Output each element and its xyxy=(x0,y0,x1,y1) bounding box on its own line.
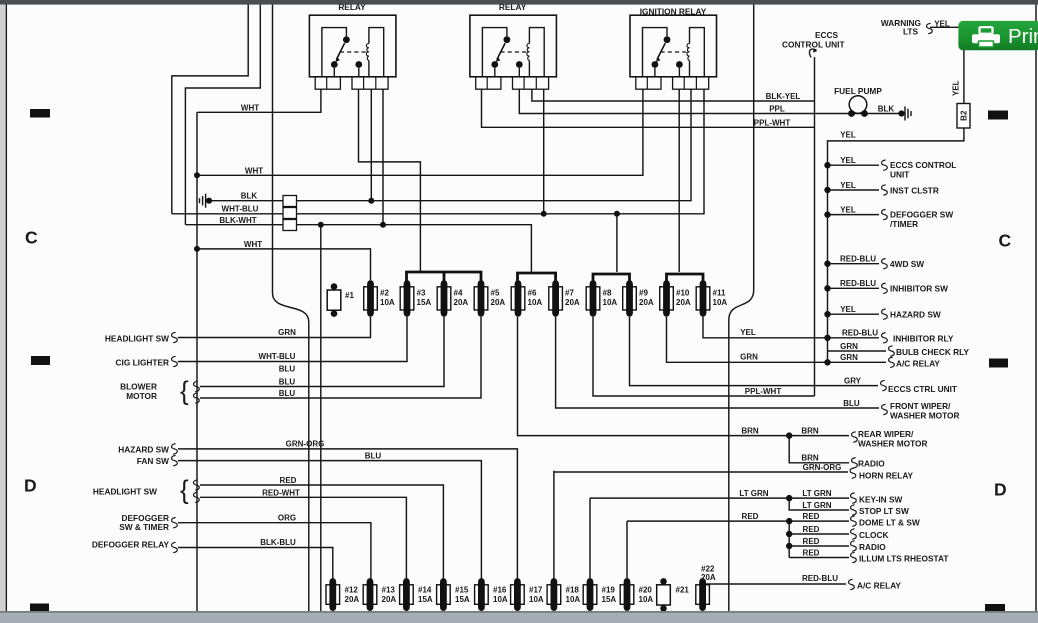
svg-text:15A: 15A xyxy=(418,595,433,604)
svg-text:10A: 10A xyxy=(603,298,618,307)
svg-text:ECCS CTRL UNIT: ECCS CTRL UNIT xyxy=(888,384,957,394)
bracket fuses 8-9 xyxy=(593,274,630,281)
branch HAZARD SW xyxy=(828,313,880,315)
svg-text:RED: RED xyxy=(803,525,820,534)
relay K1 xyxy=(309,15,396,89)
fuse #10 20A xyxy=(660,280,674,317)
svg-text:BLU: BLU xyxy=(279,389,296,398)
fuse #11 10A xyxy=(696,280,710,317)
wire BLU from fuse7 to FRONT WIPER xyxy=(556,317,879,408)
wire: bracket3 feed from WHT-BLU xyxy=(616,214,618,272)
svg-text:STOP LT SW: STOP LT SW xyxy=(859,506,909,516)
svg-text:RADIO: RADIO xyxy=(858,458,885,468)
fuse #16 10A xyxy=(475,578,489,611)
node dots lower right bus xyxy=(786,432,792,438)
svg-text:HAZARD SW: HAZARD SW xyxy=(890,310,941,320)
svg-text:YEL: YEL xyxy=(840,305,856,314)
svg-text:WHT-BLU: WHT-BLU xyxy=(222,205,259,214)
svg-text:HEADLIGHT SW: HEADLIGHT SW xyxy=(93,487,157,497)
svg-text:#8: #8 xyxy=(603,289,612,298)
svg-text:YEL: YEL xyxy=(840,205,856,214)
wire: relay1 pin2 jog to bracket1 feed xyxy=(359,90,421,273)
svg-text:20A: 20A xyxy=(701,573,716,582)
svg-text:20A: 20A xyxy=(491,298,506,307)
connector box on WHT-BLU xyxy=(283,208,297,219)
wire: ECCS control unit vertical x814.5 down to PPL-WHT row xyxy=(814,57,816,396)
svg-text:WASHER MOTOR: WASHER MOTOR xyxy=(890,411,959,421)
wire BRN bus + RADIO branch xyxy=(789,436,849,463)
svg-text:FAN SW: FAN SW xyxy=(137,456,169,466)
svg-text:RED: RED xyxy=(280,476,297,485)
svg-text:RED-BLU: RED-BLU xyxy=(802,574,838,583)
connector box on BLK xyxy=(283,196,297,207)
svg-text:DEFOGGER RELAY: DEFOGGER RELAY xyxy=(92,540,170,550)
svg-text:UNIT: UNIT xyxy=(890,170,909,180)
svg-text:YEL: YEL xyxy=(840,156,856,165)
fuse #15 15A xyxy=(437,578,451,611)
fuse #2 10A xyxy=(364,280,378,317)
svg-text:#18: #18 xyxy=(566,586,580,595)
wire BLK-YEL: relay2 pin to x814.5 xyxy=(532,90,815,102)
svg-text:WHT: WHT xyxy=(245,166,263,175)
wire BLU blower1 to fuse4 bottom xyxy=(200,317,444,387)
wire: top feed to BLK-WHT xyxy=(185,0,260,225)
bracket fuses 3-5 xyxy=(407,272,482,281)
svg-text:C: C xyxy=(25,228,38,248)
wire: long vertical from top with S-curve x753.7-728.8 xyxy=(729,0,754,611)
fuse #4 20A xyxy=(437,280,451,317)
branch DEFOGGER SW TIMER xyxy=(828,214,880,216)
svg-text:RED: RED xyxy=(803,548,820,557)
svg-text:{: { xyxy=(180,376,189,406)
svg-text:FRONT WIPER/: FRONT WIPER/ xyxy=(890,401,951,411)
wire: long vertical from top with S-curve x272-309 xyxy=(273,0,309,611)
svg-text:CIG LIGHTER: CIG LIGHTER xyxy=(116,358,169,368)
svg-text:PPL: PPL xyxy=(769,105,785,114)
wire: right page border xyxy=(1035,5,1037,612)
svg-text:BLU: BLU xyxy=(279,378,296,387)
svg-text:YEL: YEL xyxy=(934,19,950,28)
wire BLK-BLU defogger relay to fuse12 feed xyxy=(178,548,333,582)
svg-text:WHT: WHT xyxy=(241,104,259,113)
svg-text:10A: 10A xyxy=(639,595,654,604)
bottom gray strip xyxy=(0,611,1038,623)
svg-text:BLK-WHT: BLK-WHT xyxy=(219,216,256,225)
svg-text:RED-BLU: RED-BLU xyxy=(842,329,878,338)
svg-text:RED: RED xyxy=(742,512,759,521)
svg-text:A/C RELAY: A/C RELAY xyxy=(857,580,901,590)
ignition relay K3 xyxy=(630,15,717,89)
svg-text:DEFOGGER SW: DEFOGGER SW xyxy=(890,210,953,220)
svg-text:BULB CHECK RLY: BULB CHECK RLY xyxy=(896,347,969,357)
wire PPL: relay2 pin through fuel pump to ground xyxy=(519,90,900,114)
fuse #13 20A xyxy=(363,578,377,611)
svg-text:GRN: GRN xyxy=(740,353,758,362)
svg-text:INHIBITOR RLY: INHIBITOR RLY xyxy=(893,333,954,343)
connector box on BLK-WHT xyxy=(283,220,297,231)
wire LT GRN from fuse19 feed + KEY-IN SW xyxy=(590,498,849,581)
tick left bottom xyxy=(30,604,49,612)
wire: relay1 pin4 drop to BLK-WHT xyxy=(382,90,384,225)
fuse #7 20A xyxy=(549,280,563,317)
svg-text:20A: 20A xyxy=(345,595,360,604)
svg-text:ECCS CONTROL: ECCS CONTROL xyxy=(890,160,956,170)
svg-text:WHT-BLU: WHT-BLU xyxy=(259,352,296,361)
wire GRN-ORG hazard sw to fuse17 feed xyxy=(178,449,517,581)
tick left mid xyxy=(31,356,50,365)
wire: relay3 pin2 straight to bracket4 xyxy=(678,90,680,273)
node dots left bus xyxy=(194,172,200,178)
bracket fuses 6-7 xyxy=(518,273,556,281)
wire RED headlight to fuse15 feed xyxy=(200,485,443,581)
svg-text:INHIBITOR SW: INHIBITOR SW xyxy=(890,284,948,294)
svg-text:B2: B2 xyxy=(959,110,968,121)
svg-text:/TIMER: /TIMER xyxy=(890,219,918,229)
tick right bottom xyxy=(985,604,1005,611)
svg-text:#20: #20 xyxy=(639,586,653,595)
svg-text:#13: #13 xyxy=(382,586,396,595)
svg-text:#19: #19 xyxy=(602,586,616,595)
wire GRN-ORG HORN RELAY from fuse18 feed xyxy=(554,471,848,581)
svg-text:RED-BLU: RED-BLU xyxy=(840,255,876,264)
tick right top xyxy=(988,111,1008,120)
ground at fuel pump BLK xyxy=(898,110,904,116)
top bar xyxy=(0,0,1038,5)
svg-text:10A: 10A xyxy=(713,298,728,307)
fuse #22 20A label above xyxy=(696,578,710,611)
svg-text:WASHER MOTOR: WASHER MOTOR xyxy=(858,438,927,448)
svg-text:10A: 10A xyxy=(529,595,544,604)
fuse #21 (empty slot) xyxy=(657,578,671,612)
svg-text:YEL: YEL xyxy=(840,130,856,139)
svg-text:#4: #4 xyxy=(454,289,463,298)
branch ECCS CONTROL UNIT xyxy=(828,164,880,166)
wire: left bus vertical x197 xyxy=(196,112,198,611)
svg-text:PPL-WHT: PPL-WHT xyxy=(745,387,782,396)
svg-text:MOTOR: MOTOR xyxy=(126,391,157,401)
svg-text:ILLUM LTS RHEOSTAT: ILLUM LTS RHEOSTAT xyxy=(859,554,948,564)
svg-text:#12: #12 xyxy=(345,586,359,595)
svg-text:LT GRN: LT GRN xyxy=(802,501,831,510)
svg-text:#5: #5 xyxy=(491,289,500,298)
svg-text:C: C xyxy=(999,231,1012,251)
svg-text:#1: #1 xyxy=(345,291,354,300)
wire GRY from fuse9 to ECCS CTRL UNIT xyxy=(630,317,879,386)
svg-text:BLK-YEL: BLK-YEL xyxy=(766,92,801,101)
svg-text:LTS: LTS xyxy=(903,27,919,37)
wire: relay2 pin4 drop to WHT-BLU xyxy=(543,90,545,214)
print button xyxy=(958,21,1038,50)
wire BLU fan sw to fuse16 feed xyxy=(178,461,481,581)
wire: top feed to WHT-BLU xyxy=(172,0,248,214)
wire GRN from fuse10 to bus + A/C RELAY branch xyxy=(667,317,887,363)
svg-text:15A: 15A xyxy=(602,595,617,604)
svg-text:ORG: ORG xyxy=(278,514,296,523)
tick left top xyxy=(30,109,50,118)
svg-text:BLU: BLU xyxy=(365,452,382,461)
svg-text:#2: #2 xyxy=(380,289,389,298)
svg-text:INST CLSTR: INST CLSTR xyxy=(890,185,939,195)
fuse #5 20A xyxy=(474,280,488,317)
branch BULB CHECK RLY xyxy=(828,350,887,352)
branch INHIBITOR SW xyxy=(828,287,880,289)
svg-text:BRN: BRN xyxy=(801,426,819,435)
relay K2 xyxy=(470,15,557,89)
svg-text:RED-WHT: RED-WHT xyxy=(262,488,300,497)
svg-text:#6: #6 xyxy=(528,289,537,298)
svg-text:GRY: GRY xyxy=(844,376,862,385)
svg-text:GRN: GRN xyxy=(840,342,858,351)
svg-text:#11: #11 xyxy=(713,289,726,298)
wire WHT upper: relay1 pin1 to left bus xyxy=(197,90,321,113)
svg-text:#3: #3 xyxy=(417,289,426,298)
svg-text:IGNITION RELAY: IGNITION RELAY xyxy=(640,6,707,16)
svg-text:BRN: BRN xyxy=(741,426,759,435)
wire: relay1 pin3 drop xyxy=(370,90,372,201)
svg-text:FUEL PUMP: FUEL PUMP xyxy=(834,86,882,96)
fuse #6 10A xyxy=(511,280,525,317)
wire: vertical x320.8 from BLK-WHT junction to bottom xyxy=(320,225,322,611)
wire PPL-WHT lower from fuse8 xyxy=(593,317,815,396)
fuse #20 10A xyxy=(620,578,634,611)
node dots on BLK / WHT-BLU / BLK-WHT xyxy=(368,198,374,204)
wire WHT-BLU cig lighter to fuse3 bottom xyxy=(178,317,407,362)
wire: WARNING LTS YEL to vertical xyxy=(930,27,964,103)
svg-text:BLK: BLK xyxy=(241,192,258,201)
fuse #8 10A xyxy=(586,280,600,317)
wire RED-WHT headlight to fuse14 feed xyxy=(200,497,406,581)
svg-text:GRN: GRN xyxy=(278,328,296,337)
svg-text:20A: 20A xyxy=(565,298,580,307)
svg-text:SW & TIMER: SW & TIMER xyxy=(119,522,169,532)
svg-text:15A: 15A xyxy=(417,298,432,307)
bracket fuses 10-11 xyxy=(667,274,704,281)
wire: B2 to YEL corner into right bus xyxy=(828,129,964,363)
svg-text:10A: 10A xyxy=(566,595,581,604)
svg-text:Print: Print xyxy=(1008,25,1038,48)
wire RED-BLU from fuse22 to A/C RELAY xyxy=(703,581,846,584)
svg-text:#21: #21 xyxy=(676,586,690,595)
svg-text:#17: #17 xyxy=(529,586,543,595)
wire WHT-BLU: from stepped feed to relay3 pin4 xyxy=(172,90,704,214)
wire WHT second: left bus to relay3 pin1 xyxy=(197,90,643,176)
svg-text:REAR WIPER/: REAR WIPER/ xyxy=(858,429,914,439)
svg-text:10A: 10A xyxy=(493,595,508,604)
wire PPL-WHT: relay2 pin1 to x814.5 xyxy=(482,90,815,128)
svg-text:BLK: BLK xyxy=(878,105,895,114)
svg-text:#7: #7 xyxy=(565,289,574,298)
wire GRN headlight sw to fuse2 bottom xyxy=(178,317,371,338)
svg-text:BLK-BLU: BLK-BLU xyxy=(260,538,296,547)
svg-text:D: D xyxy=(24,476,37,496)
svg-text:GRN-ORG: GRN-ORG xyxy=(803,463,842,472)
svg-text:HEADLIGHT SW: HEADLIGHT SW xyxy=(105,334,169,344)
svg-text:RED: RED xyxy=(803,537,820,546)
svg-text:PPL-WHT: PPL-WHT xyxy=(754,118,791,127)
fuse #14 15A xyxy=(400,578,414,611)
svg-text:CLOCK: CLOCK xyxy=(859,530,889,540)
svg-text:DOME LT & SW: DOME LT & SW xyxy=(859,517,920,527)
branch INST CLSTR xyxy=(828,189,880,191)
svg-text:#14: #14 xyxy=(418,586,432,595)
svg-text:10A: 10A xyxy=(528,298,543,307)
svg-text:YEL: YEL xyxy=(840,181,856,190)
svg-text:20A: 20A xyxy=(676,298,691,307)
fuse #9 20A xyxy=(623,280,637,317)
fuse #12 20A xyxy=(326,578,340,611)
wire WHT lower: left bus to fuse 2 top xyxy=(197,249,371,280)
wire YEL from fuse11 to bus + INHIBITOR RLY branch xyxy=(703,317,879,338)
svg-text:KEY-IN SW: KEY-IN SW xyxy=(859,494,903,504)
svg-text:LT GRN: LT GRN xyxy=(802,489,831,498)
svg-text:RADIO: RADIO xyxy=(859,542,886,552)
svg-text:15A: 15A xyxy=(455,595,470,604)
svg-text:GRN: GRN xyxy=(840,353,858,362)
svg-text:BLU: BLU xyxy=(279,365,296,374)
left gray band xyxy=(0,5,5,623)
svg-text:YEL: YEL xyxy=(740,328,756,337)
svg-text:20A: 20A xyxy=(639,298,654,307)
fuse #3 15A xyxy=(400,280,414,317)
svg-text:10A: 10A xyxy=(380,298,395,307)
svg-text:#16: #16 xyxy=(493,586,507,595)
wire BRN from fuse6 to REAR WIPER xyxy=(518,317,850,436)
svg-text:A/C RELAY: A/C RELAY xyxy=(896,358,940,368)
svg-text:RED-BLU: RED-BLU xyxy=(840,279,876,288)
svg-text:CONTROL UNIT: CONTROL UNIT xyxy=(782,40,845,50)
svg-text:20A: 20A xyxy=(454,298,469,307)
svg-text:LT GRN: LT GRN xyxy=(739,489,768,498)
svg-text:#9: #9 xyxy=(639,289,648,298)
tick right mid xyxy=(989,359,1008,368)
fuse #19 15A xyxy=(583,578,597,611)
svg-text:D: D xyxy=(994,480,1007,500)
ground at BLK top-left xyxy=(200,194,206,208)
svg-text:{: { xyxy=(180,475,189,505)
fuse #18 10A xyxy=(547,578,561,611)
wire LT GRN bus + STOP LT SW xyxy=(789,498,849,510)
svg-text:HAZARD SW: HAZARD SW xyxy=(118,445,169,455)
wire: left page border xyxy=(5,5,7,612)
svg-text:#10: #10 xyxy=(676,289,690,298)
svg-text:GRN-ORG: GRN-ORG xyxy=(286,440,325,449)
fuse #17 10A xyxy=(511,578,525,611)
wire BLK: ground to relay3 pin3, dot at relay1 pin3 xyxy=(209,90,692,201)
svg-text:HORN RELAY: HORN RELAY xyxy=(859,470,914,480)
wire BLK-WHT: from stepped feed to bracket2 feed xyxy=(185,225,531,272)
svg-text:BLU: BLU xyxy=(843,399,860,408)
wire RED from fuse20 feed + DOME LT & SW xyxy=(627,521,849,581)
wire ORG defogger sw-timer to fuse13 feed xyxy=(178,523,371,581)
svg-text:ECCS: ECCS xyxy=(815,30,839,40)
svg-text:YEL: YEL xyxy=(952,80,961,96)
wire BLU blower2 to fuse5 bottom xyxy=(200,317,481,398)
svg-text:#15: #15 xyxy=(455,586,469,595)
svg-text:BRN: BRN xyxy=(801,454,819,463)
svg-text:20A: 20A xyxy=(382,595,397,604)
fuse #1 (empty slot) xyxy=(327,283,341,317)
branch 4WD SW xyxy=(828,263,880,265)
wire RED bus + CLOCK RADIO ILLUM xyxy=(789,521,849,557)
svg-text:WHT: WHT xyxy=(244,240,262,249)
svg-text:4WD SW: 4WD SW xyxy=(890,259,924,269)
node dots right bus xyxy=(824,162,830,168)
svg-text:RED: RED xyxy=(803,512,820,521)
